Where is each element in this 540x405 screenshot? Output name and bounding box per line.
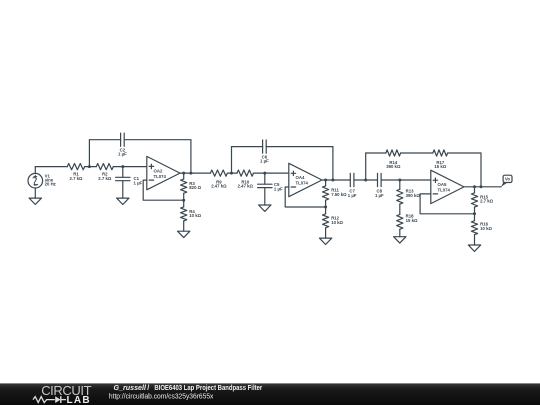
svg-text:10 kΩ: 10 kΩ: [331, 220, 343, 225]
svg-text:7.50 kΩ: 7.50 kΩ: [331, 192, 347, 197]
ground below C1: [117, 198, 129, 204]
svg-text:2.47 kΩ: 2.47 kΩ: [238, 184, 254, 189]
ground below R18: [394, 237, 406, 243]
wire OA4 feedback: [285, 187, 325, 207]
svg-text:G_russell: G_russell: [114, 385, 148, 392]
svg-text:OA2: OA2: [154, 168, 163, 173]
svg-text:1 µF: 1 µF: [274, 186, 283, 191]
svg-text:2.7 kΩ: 2.7 kΩ: [69, 176, 83, 181]
svg-text:OA4: OA4: [296, 175, 305, 180]
node B2 junction: [263, 172, 266, 175]
svg-text:/: /: [147, 385, 149, 392]
op-amp OA2: [147, 156, 180, 189]
node riser junction 3: [480, 185, 483, 188]
svg-text:1 µF: 1 µF: [348, 193, 357, 198]
wire C7 to C8: [354, 179, 378, 181]
V1 value label: [45, 174, 56, 187]
node riser junction 2: [331, 179, 334, 182]
svg-text:BIOE6403 Lap Project Bandpass: BIOE6403 Lap Project Bandpass Filter: [154, 385, 262, 392]
resistor R13: [397, 180, 421, 204]
svg-text:10 kΩ: 10 kΩ: [189, 213, 201, 218]
node B3 junction: [398, 179, 401, 182]
wire C2 to output riser: [124, 140, 191, 173]
svg-text:10 kΩ: 10 kΩ: [480, 226, 492, 231]
svg-text:2.7 kΩ: 2.7 kΩ: [480, 199, 494, 204]
wire C8 to opamp3: [381, 179, 431, 181]
resistor R3: [181, 173, 202, 200]
svg-text:15 kΩ: 15 kΩ: [406, 218, 418, 223]
op-amp OA5: [431, 170, 464, 203]
wire feedback riser C7-C8: [366, 153, 386, 180]
ground below R4: [178, 231, 190, 237]
ground below C5: [259, 205, 271, 211]
wire OA5 output: [464, 186, 501, 188]
svg-text:390 kΩ: 390 kΩ: [406, 193, 421, 198]
capacitor C6: [260, 140, 269, 163]
node R3-R4 junction: [182, 199, 185, 202]
capacitor C7: [348, 173, 357, 198]
resistor R14: [386, 150, 401, 169]
node C7-C8 junction: [364, 179, 367, 182]
op-amp OA4: [289, 163, 322, 196]
svg-text:2.47 kΩ: 2.47 kΩ: [211, 184, 227, 189]
node R15 junction: [473, 185, 476, 188]
capacitor C2: [118, 133, 127, 156]
svg-text:TL074: TL074: [438, 188, 451, 193]
svg-text:1 µF: 1 µF: [118, 152, 127, 157]
svg-text:TL074: TL074: [154, 174, 167, 179]
wire R2 to opamp: [113, 166, 147, 168]
wire R13 to R18: [399, 204, 401, 214]
svg-text:2.7 kΩ: 2.7 kΩ: [98, 176, 112, 181]
resistor R15: [471, 187, 493, 214]
svg-text:390 kΩ: 390 kΩ: [386, 164, 401, 169]
ground below V1: [29, 198, 41, 204]
svg-text:1 µF: 1 µF: [375, 193, 384, 198]
resistor R1: [67, 164, 84, 182]
wire R9 to R10: [227, 172, 237, 174]
node A1 junction: [88, 165, 91, 168]
wire V1 to R1: [35, 166, 67, 168]
svg-text:http://circuitlab.com/cs325y36: http://circuitlab.com/cs325y36r655x: [109, 394, 214, 401]
CircuitLab logo: [33, 383, 92, 405]
svg-text:OA5: OA5: [438, 182, 447, 187]
wire C6 to output riser: [266, 147, 333, 180]
svg-text:1 µF: 1 µF: [134, 180, 143, 185]
wire R10 to opamp2: [254, 172, 289, 174]
svg-text:1 µF: 1 µF: [260, 158, 269, 163]
wire OA2 output: [180, 172, 210, 174]
wire OA2 feedback: [143, 180, 184, 200]
svg-text:TL074: TL074: [296, 181, 309, 186]
svg-text:820 Ω: 820 Ω: [189, 185, 201, 190]
ground below R12: [319, 238, 331, 244]
resistor R11: [323, 180, 348, 207]
wire feedback riser A2: [232, 147, 263, 174]
node R11-R12 junction: [324, 206, 327, 209]
node R15-R16 junction: [473, 212, 476, 215]
output flag Vo: [501, 175, 512, 187]
node A2 junction: [230, 172, 233, 175]
wire R14 to R17: [401, 152, 433, 154]
capacitor C8: [375, 173, 384, 198]
voltage source V1: [28, 167, 43, 199]
resistor R17: [433, 150, 448, 169]
ground below R16: [468, 245, 480, 251]
resistor R9: [210, 170, 227, 189]
resistor R2: [96, 164, 113, 182]
svg-text:Vo: Vo: [505, 177, 510, 182]
wire OA4 output: [322, 179, 350, 181]
capacitor C5: [258, 173, 283, 205]
resistor R4: [181, 200, 202, 231]
node OA2 out junction: [182, 172, 185, 175]
svg-text:20 Hz: 20 Hz: [45, 182, 56, 187]
wire OA5 feedback: [420, 194, 474, 214]
svg-text:15 kΩ: 15 kΩ: [434, 164, 446, 169]
wire R1 to node A1: [85, 166, 97, 168]
footer bar: [0, 383, 540, 405]
resistor R10: [237, 170, 254, 189]
resistor R16: [471, 214, 492, 245]
resistor R12: [323, 207, 344, 238]
svg-text:LAB: LAB: [67, 395, 91, 405]
node riser junction: [189, 172, 192, 175]
resistor R18: [397, 214, 418, 237]
wire R17 to output riser: [448, 153, 481, 187]
node B1 junction: [121, 165, 124, 168]
wire feedback riser A1: [89, 140, 120, 167]
capacitor C1: [116, 167, 143, 199]
node OA4 out junction: [324, 179, 327, 182]
